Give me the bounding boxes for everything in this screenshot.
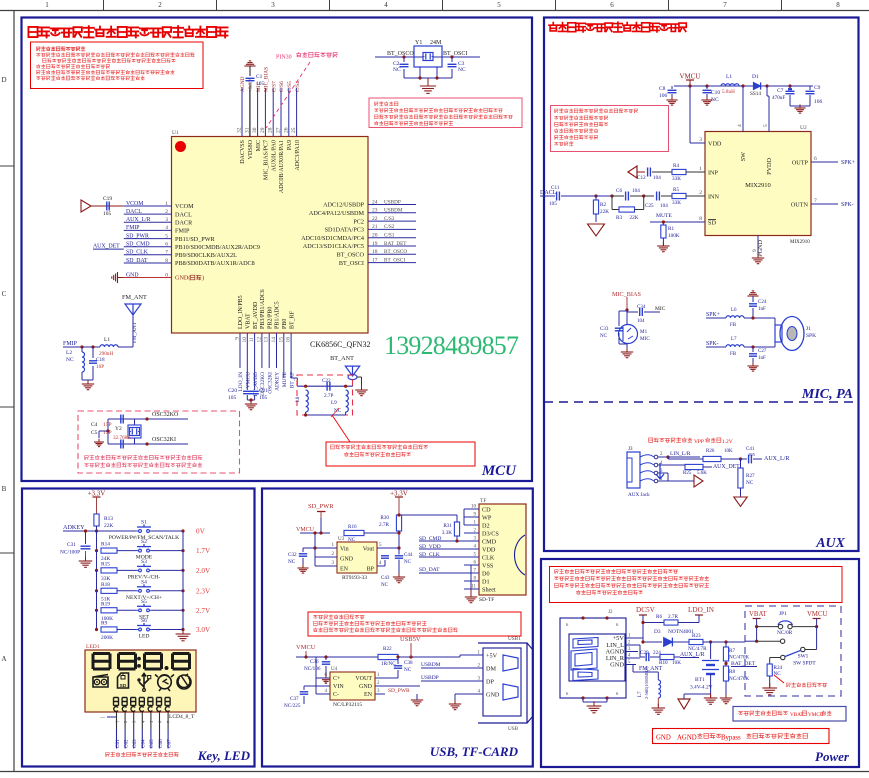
svg-text:0: 0	[165, 272, 168, 278]
svg-text:PB3/PB1/ADC6: PB3/PB1/ADC6	[260, 289, 266, 329]
svg-text:R5: R5	[673, 187, 679, 193]
svg-text:105: 105	[228, 395, 237, 401]
svg-text:R22: R22	[383, 646, 392, 652]
svg-text:NC: NC	[393, 67, 401, 73]
svg-text:FM_ANT: FM_ANT	[122, 294, 147, 301]
svg-text:NC: NC	[66, 357, 74, 363]
svg-text:C36: C36	[310, 659, 319, 665]
svg-text:GND: GND	[656, 735, 671, 742]
svg-text:EN: EN	[364, 692, 373, 698]
svg-text:NC: NC	[404, 560, 412, 565]
svg-text:BP: BP	[367, 567, 375, 573]
svg-text:PB2/PB0: PB2/PB0	[267, 307, 273, 329]
svg-text:2.7R: 2.7R	[668, 614, 678, 620]
svg-text:5: 5	[165, 233, 168, 239]
svg-text:VBAT: VBAT	[246, 313, 252, 329]
svg-text:C32: C32	[288, 552, 297, 558]
svg-text:12: 12	[256, 337, 262, 343]
svg-text:105: 105	[549, 201, 557, 207]
svg-text:4: 4	[384, 1, 388, 9]
svg-text:BT1: BT1	[695, 677, 705, 683]
svg-text:U3: U3	[338, 537, 345, 542]
svg-text:NC: NC	[746, 480, 754, 486]
svg-text:17: 17	[372, 257, 378, 263]
svg-text:R23: R23	[692, 633, 701, 639]
svg-text:26: 26	[283, 127, 289, 133]
svg-text:L6: L6	[731, 308, 737, 313]
svg-text:PA9: PA9	[287, 140, 293, 150]
svg-text:4: 4	[165, 225, 168, 231]
svg-text:LED: LED	[139, 634, 150, 640]
svg-text:1nF: 1nF	[758, 356, 766, 361]
svg-text:8: 8	[699, 216, 702, 222]
svg-text:DACL: DACL	[126, 209, 142, 215]
svg-text:C10: C10	[711, 90, 720, 96]
svg-text:LDO_IN: LDO_IN	[688, 606, 715, 614]
svg-text:SPK+: SPK+	[841, 160, 855, 166]
svg-text:S2: S2	[141, 539, 147, 545]
svg-text:NC: NC	[381, 583, 389, 588]
svg-text:C/S4: C/S4	[295, 81, 301, 92]
svg-text:U4: U4	[331, 667, 338, 672]
svg-text:13928489857: 13928489857	[384, 331, 519, 360]
svg-text:9: 9	[235, 337, 241, 340]
svg-text:C/S1: C/S1	[384, 233, 395, 239]
svg-text:R25: R25	[683, 471, 692, 476]
svg-text:5.8uH: 5.8uH	[722, 89, 735, 95]
svg-text:C22: C22	[322, 378, 331, 384]
svg-text:OSC32KI: OSC32KI	[152, 437, 176, 443]
svg-text:D3: D3	[654, 629, 661, 635]
svg-text:22K: 22K	[104, 523, 113, 529]
svg-text:SD_DAT: SD_DAT	[419, 567, 440, 573]
svg-text:8: 8	[165, 258, 168, 264]
svg-text:10K: 10K	[672, 660, 681, 666]
svg-text:13: 13	[264, 337, 270, 343]
svg-text:C11: C11	[551, 185, 560, 191]
svg-text:BT_OSCO: BT_OSCO	[336, 252, 364, 259]
svg-text:FM_ANT: FM_ANT	[132, 321, 138, 343]
svg-text:22K: 22K	[630, 215, 639, 221]
svg-text:105: 105	[748, 452, 756, 457]
svg-text:30: 30	[252, 127, 258, 133]
svg-text:AUX: AUX	[815, 536, 845, 551]
svg-text:J3: J3	[628, 447, 633, 452]
svg-text:EN: EN	[340, 567, 349, 573]
svg-text:S4: S4	[141, 579, 147, 585]
svg-text:+3.3V: +3.3V	[390, 490, 408, 498]
svg-text:ADC12/USBDP: ADC12/USBDP	[323, 202, 364, 209]
svg-text:4: 4	[737, 124, 743, 127]
svg-text:DACR: DACR	[175, 220, 193, 227]
svg-text:NOTN4001: NOTN4001	[668, 629, 694, 635]
svg-text:D3/CS: D3/CS	[482, 531, 499, 538]
svg-text:3.3K: 3.3K	[442, 530, 452, 536]
svg-text:VBAT: VBAT	[749, 611, 768, 618]
svg-text:GND: GND	[486, 692, 500, 699]
svg-text:BT_AVDD: BT_AVDD	[253, 301, 259, 329]
svg-text:2: 2	[158, 1, 162, 9]
svg-text:10: 10	[242, 337, 248, 343]
svg-text:6: 6	[165, 242, 168, 248]
svg-text:C34: C34	[637, 305, 646, 310]
svg-text:1: 1	[699, 166, 702, 172]
svg-text:R30: R30	[380, 515, 389, 521]
svg-text:SW: SW	[740, 152, 747, 161]
svg-text:VDD: VDD	[482, 547, 496, 554]
svg-text:106: 106	[659, 93, 668, 99]
svg-text:R15: R15	[101, 561, 110, 567]
svg-text:3.4V-4.2V: 3.4V-4.2V	[690, 685, 713, 691]
svg-text:C38: C38	[404, 660, 413, 666]
svg-text:PVDD: PVDD	[766, 157, 773, 174]
svg-text:USB1: USB1	[508, 636, 521, 642]
svg-text:NC: NC	[458, 67, 466, 73]
svg-text:1: 1	[45, 1, 49, 9]
svg-text:R26: R26	[706, 449, 715, 454]
svg-text:USBDP: USBDP	[421, 675, 439, 681]
svg-text:FM_ANT: FM_ANT	[639, 666, 663, 672]
svg-text:C5: C5	[91, 430, 98, 436]
svg-text:S5: S5	[141, 599, 147, 605]
svg-text:GND: GND	[359, 684, 373, 690]
svg-text:11: 11	[249, 337, 255, 343]
svg-text:USB: USB	[508, 726, 519, 732]
svg-text:Power: Power	[815, 749, 850, 764]
svg-text:6: 6	[610, 1, 614, 9]
svg-text:200K: 200K	[101, 635, 113, 641]
svg-text:R14: R14	[101, 542, 110, 548]
svg-text:3: 3	[165, 217, 168, 223]
svg-text:B: B	[2, 485, 7, 493]
svg-text:MIC_BIAS: MIC_BIAS	[264, 67, 270, 92]
svg-text:10: 10	[471, 505, 477, 510]
svg-text:FMIP: FMIP	[175, 228, 190, 235]
svg-text:SD-TF: SD-TF	[479, 597, 494, 603]
svg-text:16: 16	[286, 337, 292, 343]
svg-text:C20: C20	[228, 388, 237, 394]
svg-text:Y1: Y1	[415, 40, 422, 46]
svg-text:SW SPDT: SW SPDT	[793, 661, 816, 667]
svg-text:C+: C+	[333, 676, 341, 682]
svg-text:Vout: Vout	[363, 547, 375, 553]
svg-text:C-: C-	[333, 692, 339, 698]
svg-text:SD_CLK: SD_CLK	[126, 250, 149, 256]
svg-text:29: 29	[260, 127, 266, 133]
svg-text:C65: C65	[149, 739, 155, 748]
svg-text:SD: SD	[708, 220, 716, 227]
svg-text:C44: C44	[404, 553, 413, 558]
svg-text:PB9/SD0CLKB/AUX2L: PB9/SD0CLKB/AUX2L	[175, 252, 237, 259]
svg-text:NC: NC	[711, 97, 719, 103]
svg-text:7: 7	[165, 250, 168, 256]
svg-text:R1: R1	[668, 226, 674, 232]
svg-text:5: 5	[763, 124, 769, 127]
svg-text:23: 23	[372, 208, 378, 214]
svg-text:25: 25	[291, 127, 297, 133]
svg-text:Bypass: Bypass	[721, 735, 741, 742]
svg-text:470uF: 470uF	[772, 95, 785, 101]
svg-text:WP: WP	[482, 515, 492, 522]
svg-text:R27: R27	[746, 473, 755, 479]
svg-text:19: 19	[372, 241, 378, 247]
svg-text:AGND: AGND	[240, 76, 246, 92]
svg-text:7: 7	[814, 198, 817, 204]
svg-text:NC: NC	[348, 537, 356, 543]
svg-text:VIN: VIN	[333, 684, 344, 690]
svg-text:VMCU: VMCU	[807, 611, 827, 618]
svg-text:C33: C33	[600, 327, 609, 332]
svg-text:S6: S6	[141, 618, 147, 624]
svg-text:ADC13/SD1CLKA/PC5: ADC13/SD1CLKA/PC5	[303, 243, 364, 250]
svg-text:L2: L2	[66, 350, 72, 356]
svg-text:8: 8	[836, 1, 840, 9]
svg-text:LIN_L/R: LIN_L/R	[670, 451, 691, 457]
svg-text:C19: C19	[103, 196, 112, 202]
svg-text:21: 21	[372, 224, 378, 230]
svg-text:Sheet: Sheet	[482, 587, 496, 594]
svg-text:LDO_IN: LDO_IN	[238, 372, 244, 392]
svg-text:JP1: JP1	[779, 611, 787, 617]
svg-text:L1: L1	[726, 74, 732, 80]
svg-text:22K: 22K	[600, 209, 609, 215]
svg-text:106: 106	[814, 99, 823, 105]
svg-text:DC5V: DC5V	[636, 606, 656, 614]
svg-text:3: 3	[271, 1, 275, 9]
svg-text:MIC: MIC	[256, 140, 262, 151]
svg-text:S3: S3	[141, 559, 147, 565]
svg-text:BT_RF: BT_RF	[289, 310, 295, 329]
svg-text:): )	[202, 275, 204, 282]
svg-text:C25: C25	[645, 203, 654, 209]
svg-text:CD: CD	[482, 507, 491, 514]
svg-text:5: 5	[497, 1, 501, 9]
svg-text:R13: R13	[104, 516, 113, 522]
svg-text:L7: L7	[731, 337, 737, 342]
svg-text:MIX2910: MIX2910	[790, 240, 810, 245]
svg-text:C29: C29	[640, 650, 649, 656]
svg-text:SPK: SPK	[806, 333, 816, 339]
svg-text:BT_OSCI: BT_OSCI	[339, 260, 364, 267]
svg-text:PB8/SD0DATB/AUX1R/ADC8: PB8/SD0DATB/AUX1R/ADC8	[175, 260, 255, 267]
svg-text:BT_ANT: BT_ANT	[330, 355, 354, 362]
svg-text:—: —	[99, 716, 106, 721]
svg-text:CMD: CMD	[482, 539, 497, 546]
svg-text:VDS8O: VDS8O	[248, 139, 254, 159]
svg-text:+5V: +5V	[486, 653, 498, 660]
svg-text:1nF: 1nF	[758, 307, 766, 312]
svg-text:MIC_BIAS/PC7: MIC_BIAS/PC7	[264, 140, 270, 180]
svg-text:C31: C31	[67, 542, 76, 548]
svg-text:OUTP: OUTP	[792, 160, 809, 167]
svg-text:D0: D0	[482, 571, 490, 578]
svg-text:RT9193-33: RT9193-33	[342, 575, 367, 581]
svg-text:SD_CMD: SD_CMD	[126, 242, 150, 248]
svg-text:R2: R2	[600, 202, 606, 208]
svg-text:D2: D2	[482, 523, 490, 530]
svg-text:USBDM: USBDM	[384, 208, 403, 214]
svg-text:TF: TF	[480, 498, 486, 504]
svg-text:USB5V: USB5V	[400, 636, 421, 643]
svg-text:SD1DATA/PC3: SD1DATA/PC3	[325, 227, 364, 234]
svg-text:SD_PWR: SD_PWR	[126, 233, 149, 239]
svg-text:3.0V: 3.0V	[196, 626, 211, 634]
svg-text:SPK-: SPK-	[841, 202, 854, 208]
svg-text:11: 11	[471, 585, 476, 590]
svg-text:+3.3V: +3.3V	[88, 490, 106, 498]
svg-text:INN: INN	[708, 194, 720, 201]
svg-text:ADC10/SD1CMDA/PC4: ADC10/SD1CMDA/PC4	[301, 235, 364, 242]
svg-text:C18: C18	[96, 357, 105, 363]
svg-text:M1: M1	[640, 329, 648, 335]
svg-text:SPK+: SPK+	[706, 312, 720, 318]
svg-text:Vin: Vin	[340, 547, 349, 553]
svg-text:104: 104	[660, 203, 668, 209]
svg-text:PB11/SD_PWR: PB11/SD_PWR	[175, 236, 216, 243]
svg-text:SD_DAT: SD_DAT	[126, 258, 148, 264]
svg-text:14: 14	[271, 337, 277, 343]
svg-text:28: 28	[268, 127, 274, 133]
svg-text:A: A	[1, 655, 6, 663]
svg-text:OSC32KI: OSC32KI	[267, 372, 273, 394]
svg-text:SD_PWR: SD_PWR	[308, 503, 334, 510]
svg-text:GND: GND	[610, 662, 624, 669]
svg-text:AUX_DET: AUX_DET	[93, 244, 120, 250]
svg-text:R31: R31	[443, 523, 452, 529]
svg-text:104: 104	[632, 188, 640, 194]
svg-text:USB, TF-CARD: USB, TF-CARD	[430, 744, 519, 759]
svg-text:J2: J2	[608, 610, 613, 615]
svg-text:VCOM: VCOM	[175, 203, 194, 210]
svg-text:Y2: Y2	[115, 426, 122, 432]
svg-text:PIN30: PIN30	[276, 55, 292, 61]
svg-text:C66: C66	[158, 739, 164, 748]
svg-text:R7: R7	[729, 648, 735, 654]
svg-text:NC/LP32115: NC/LP32115	[333, 702, 362, 708]
svg-text:C64: C64	[141, 739, 147, 748]
svg-text:ADKEY: ADKEY	[275, 372, 281, 391]
svg-text:USBDM: USBDM	[421, 662, 441, 668]
svg-text:C9: C9	[814, 85, 821, 91]
svg-text:C67: C67	[166, 739, 172, 748]
svg-text:15: 15	[278, 337, 284, 343]
svg-text:VMCU: VMCU	[246, 372, 252, 388]
svg-text:2.7R: 2.7R	[379, 522, 389, 528]
svg-text:C7: C7	[777, 88, 784, 94]
svg-text:105: 105	[103, 211, 112, 217]
svg-text:C: C	[2, 290, 7, 298]
svg-text:1: 1	[165, 201, 168, 207]
svg-text:3: 3	[699, 137, 702, 143]
svg-text:GND: GND	[340, 557, 354, 563]
svg-text:J1: J1	[806, 326, 811, 332]
svg-text:2.0V: 2.0V	[196, 567, 211, 575]
svg-text:+5V: +5V	[613, 635, 625, 642]
svg-text:L1: L1	[104, 337, 110, 343]
svg-text:VCOM: VCOM	[126, 201, 143, 207]
svg-text:C1: C1	[256, 74, 263, 80]
svg-text:ADC3/PA10: ADC3/PA10	[295, 140, 301, 170]
svg-text:PB10/SD0CMDB/AUX2R/ADC9: PB10/SD0CMDB/AUX2R/ADC9	[175, 244, 260, 251]
svg-text:SW1: SW1	[798, 654, 809, 660]
svg-text:VMCU: VMCU	[296, 644, 316, 651]
svg-text:FB: FB	[730, 323, 737, 328]
svg-text:0V: 0V	[196, 528, 206, 536]
svg-text:CK6856C_QFN32: CK6856C_QFN32	[310, 340, 370, 349]
svg-text:C27: C27	[758, 349, 767, 354]
svg-text:MCU: MCU	[481, 463, 517, 479]
svg-text:FMIP: FMIP	[63, 341, 78, 347]
svg-text:1.2V: 1.2V	[722, 439, 733, 445]
svg-text:18: 18	[372, 249, 378, 255]
svg-text:C43: C43	[381, 576, 390, 581]
svg-text:7: 7	[723, 1, 727, 9]
svg-text:NC/106: NC/106	[304, 666, 321, 672]
svg-text:2: 2	[699, 190, 702, 196]
svg-text:BT_OSCI: BT_OSCI	[443, 51, 467, 57]
svg-text:BT_AVDD: BT_AVDD	[253, 372, 259, 397]
svg-text:BT_OSCO: BT_OSCO	[387, 51, 414, 57]
svg-text:R18: R18	[101, 582, 110, 588]
svg-text:C24: C24	[758, 300, 767, 305]
svg-text:32: 32	[237, 127, 243, 133]
svg-text:DM: DM	[486, 666, 496, 673]
svg-text:105: 105	[256, 81, 265, 87]
svg-text:AUX_DET: AUX_DET	[713, 464, 740, 470]
svg-text:33K: 33K	[672, 200, 681, 206]
svg-text:33K: 33K	[672, 176, 681, 182]
svg-text:BT_RF: BT_RF	[289, 372, 295, 388]
svg-text:2.7V: 2.7V	[196, 607, 211, 615]
svg-text:C62: C62	[123, 739, 129, 748]
svg-text:C12: C12	[637, 175, 646, 181]
svg-text:USBDP: USBDP	[384, 199, 401, 205]
svg-text:20: 20	[372, 233, 378, 239]
svg-text:AUX Jack: AUX Jack	[628, 492, 650, 498]
svg-text:C63: C63	[132, 739, 138, 748]
svg-text:100K: 100K	[668, 233, 680, 239]
svg-text:104: 104	[653, 175, 661, 181]
svg-text:FMIP: FMIP	[126, 225, 140, 231]
svg-text:SPK-: SPK-	[706, 341, 719, 347]
svg-text:22: 22	[372, 216, 378, 222]
svg-text:AUX0L/PA0: AUX0L/PA0	[271, 140, 277, 171]
svg-text:R4: R4	[673, 163, 679, 169]
svg-text:DACVSS: DACVSS	[240, 140, 246, 164]
svg-text:Key, LED: Key, LED	[197, 748, 251, 763]
svg-text:R19: R19	[101, 601, 110, 607]
svg-text:C6: C6	[616, 188, 622, 194]
svg-text:S1: S1	[141, 520, 147, 526]
svg-text:C37: C37	[290, 696, 299, 702]
svg-text:U2: U2	[800, 125, 807, 131]
svg-text:FB: FB	[730, 352, 737, 357]
svg-text:C21: C21	[259, 388, 268, 394]
svg-text:2-56R(1000MHZ): 2-56R(1000MHZ)	[644, 666, 649, 699]
svg-text:MIC, PA: MIC, PA	[801, 387, 853, 402]
svg-text:VBAT: VBAT	[790, 712, 804, 718]
svg-text:LDO_IN/PB5: LDO_IN/PB5	[238, 295, 244, 329]
svg-text:OSC32KO: OSC32KO	[152, 412, 179, 418]
svg-text:SD_PWR: SD_PWR	[388, 688, 410, 694]
svg-text:BT_OSCI: BT_OSCI	[384, 257, 405, 263]
svg-text:ADC4/PA12/USBDM: ADC4/PA12/USBDM	[309, 210, 365, 217]
svg-text:31: 31	[244, 127, 250, 133]
svg-text:NC/470K: NC/470K	[729, 655, 749, 661]
svg-text:MIX2910: MIX2910	[745, 182, 771, 189]
svg-text:D: D	[1, 76, 6, 84]
svg-text:105: 105	[259, 395, 268, 401]
